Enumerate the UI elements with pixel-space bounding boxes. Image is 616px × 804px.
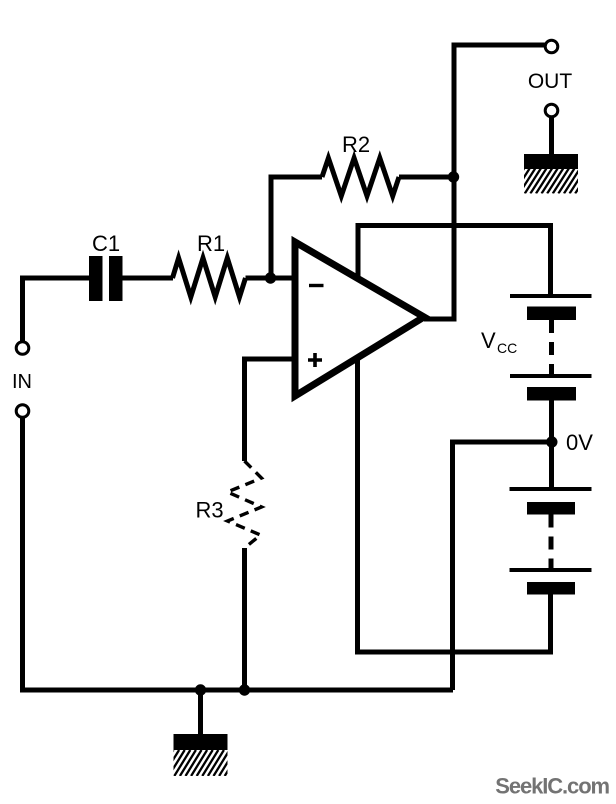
wire positive supply V+ to op-amp xyxy=(358,226,551,295)
wire 0V return to ground rail xyxy=(453,442,553,690)
wire B2 to 0V node xyxy=(549,400,554,489)
wire battery B3-B4 dashed link xyxy=(549,515,554,569)
resistor R2 xyxy=(322,158,399,196)
capacitor C1 xyxy=(89,256,123,301)
wire battery B1-B2 dashed link xyxy=(549,320,554,376)
wire R3 to bottom rail xyxy=(242,548,247,690)
node OUT label xyxy=(528,70,573,93)
battery B3 negative plate xyxy=(527,502,575,515)
terminal IN lower circle xyxy=(16,405,29,418)
wire IN upper lead xyxy=(20,278,25,341)
label C1 xyxy=(92,231,120,256)
node junction ground stub xyxy=(195,684,206,695)
label 0V xyxy=(566,430,593,455)
battery B1 positive plate xyxy=(510,294,592,298)
label R2 xyxy=(342,132,370,157)
label Vcc xyxy=(481,328,517,356)
wire output riser to OUT xyxy=(424,45,545,319)
op-amp U1 inverting pin mark xyxy=(309,284,324,287)
wire IN to bottom rail xyxy=(20,418,25,688)
svg-text:IN: IN xyxy=(12,371,32,393)
op-amp U1 xyxy=(295,242,424,396)
battery B4 positive plate xyxy=(510,568,592,572)
node 0V junction xyxy=(546,436,557,447)
svg-text:R1: R1 xyxy=(197,231,225,256)
terminal OUT lower circle xyxy=(545,104,558,117)
node junction R2/output xyxy=(448,171,459,182)
wire OUT circle to chassis ground xyxy=(549,117,554,156)
svg-text:0V: 0V xyxy=(566,430,593,455)
battery B3 positive plate xyxy=(510,487,592,491)
ground chassis bottom xyxy=(158,734,241,776)
resistor R3 (dashed) xyxy=(228,461,262,548)
op-amp U1 non-inverting pin mark xyxy=(308,353,322,367)
wire R2 left leg xyxy=(271,177,322,278)
wire C1 to R1 xyxy=(123,276,174,281)
resistor R1 xyxy=(173,258,246,297)
wire ground stub xyxy=(198,690,203,736)
svg-text:OUT: OUT xyxy=(528,70,573,93)
wire R2 to output node xyxy=(399,175,454,180)
wire negative supply V- to op-amp xyxy=(358,350,551,652)
label R1 xyxy=(197,231,225,256)
svg-text:SeekIC.com: SeekIC.com xyxy=(495,774,609,799)
svg-text:R2: R2 xyxy=(342,132,370,157)
battery B2 positive plate xyxy=(510,374,592,378)
battery B4 negative plate xyxy=(527,582,575,595)
node IN label xyxy=(12,371,32,393)
node junction R3/ground rail xyxy=(239,684,250,695)
wire R1 to inverting input xyxy=(246,276,294,281)
svg-text:CC: CC xyxy=(497,340,517,356)
wire non-inverting input from R3 xyxy=(245,357,294,462)
terminal IN upper circle xyxy=(16,342,29,355)
wire bottom ground rail xyxy=(20,688,453,693)
ground chassis at OUT xyxy=(508,154,591,194)
svg-text:C1: C1 xyxy=(92,231,120,256)
svg-text:R3: R3 xyxy=(195,498,223,523)
wire IN to capacitor C1 xyxy=(20,276,90,281)
label watermark SeekIC.com xyxy=(495,774,609,799)
battery B1 negative plate xyxy=(527,307,576,321)
svg-text:V: V xyxy=(481,328,496,353)
node junction R1/R2 xyxy=(265,272,276,283)
battery B2 negative plate xyxy=(527,387,576,401)
terminal OUT upper circle xyxy=(545,40,558,53)
label R3 xyxy=(195,498,223,523)
